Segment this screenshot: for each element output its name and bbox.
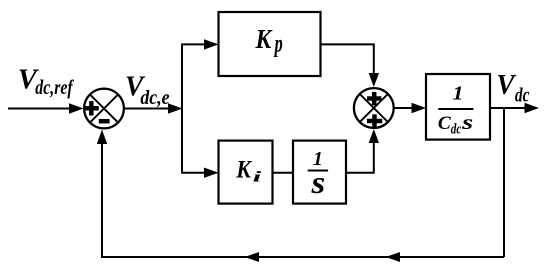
svg-text:dc,e: dc,e xyxy=(140,87,169,109)
wire: feedback bottom run xyxy=(102,256,504,258)
svg-text:C: C xyxy=(438,113,451,134)
summing junction S1 xyxy=(84,89,124,129)
S2 top plus sign xyxy=(367,92,381,105)
wire: feedback riser to S1 xyxy=(97,130,107,258)
svg-text:K: K xyxy=(235,155,252,184)
wire: reference input xyxy=(8,103,84,113)
S1 plus sign xyxy=(84,101,99,115)
label Ki xyxy=(235,155,261,186)
svg-text:K: K xyxy=(255,24,273,54)
svg-text:p: p xyxy=(273,30,282,57)
svg-text:dc,ref: dc,ref xyxy=(35,75,74,99)
feedback arrowhead right xyxy=(386,252,401,262)
wire: feedback tap down xyxy=(503,108,505,257)
svg-text:i: i xyxy=(253,169,262,185)
wire: Kp output to S2 top xyxy=(321,44,380,87)
block Kp xyxy=(219,12,321,76)
wire: Ki to 1/s xyxy=(273,172,294,174)
wire: branch to Kp xyxy=(181,39,218,49)
wire: S2 to plant block xyxy=(395,103,427,113)
feedback arrowhead left xyxy=(245,252,260,262)
label Vdc xyxy=(497,69,530,107)
wire: branch to Ki xyxy=(181,168,218,178)
block 1/(Cdc s) xyxy=(426,74,490,140)
svg-text:s: s xyxy=(310,164,325,200)
summing junction S2 xyxy=(354,88,394,128)
label 1/(Cdc s) xyxy=(438,84,474,138)
svg-text:dc: dc xyxy=(451,122,462,138)
wire: 1/s output to S2 bottom xyxy=(346,129,379,173)
S1 minus sign xyxy=(99,119,110,124)
wire: S1 output to branch node xyxy=(124,103,183,113)
svg-text:1: 1 xyxy=(452,84,463,105)
label Vdc,e xyxy=(125,71,170,109)
label Vdc,ref xyxy=(18,63,74,99)
label 1/s xyxy=(308,149,328,200)
svg-text:dc: dc xyxy=(515,85,530,107)
svg-text:s: s xyxy=(461,110,473,134)
block 1/s xyxy=(293,141,346,204)
label Kp xyxy=(255,24,283,57)
block Ki xyxy=(219,141,273,204)
S2 bottom plus sign xyxy=(367,114,382,127)
wire: branch vertical xyxy=(181,44,183,172)
wire: plant output xyxy=(490,103,539,113)
svg-text:V: V xyxy=(497,69,517,101)
